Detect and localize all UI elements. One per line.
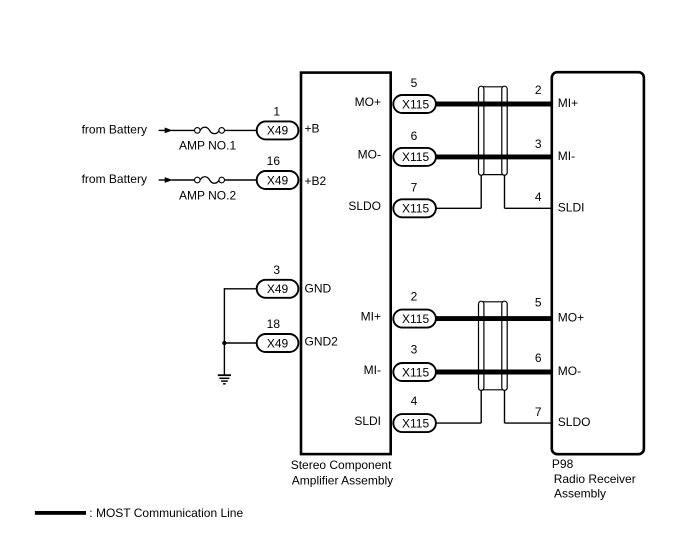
- svg-text:GND: GND: [305, 282, 332, 296]
- svg-text:MI-: MI-: [364, 363, 381, 377]
- svg-text:SLDO: SLDO: [558, 415, 591, 429]
- svg-text:AMP NO.1: AMP NO.1: [179, 139, 236, 153]
- svg-text:Stereo Component: Stereo Component: [291, 458, 392, 472]
- svg-text:6: 6: [411, 129, 418, 143]
- svg-text:2: 2: [535, 83, 542, 97]
- svg-text:4: 4: [535, 190, 542, 204]
- svg-text:X49: X49: [267, 282, 289, 296]
- svg-text:SLDI: SLDI: [354, 414, 381, 428]
- svg-text:5: 5: [535, 296, 542, 310]
- svg-text:X49: X49: [267, 173, 289, 187]
- svg-text:3: 3: [411, 343, 418, 357]
- svg-text:MO+: MO+: [355, 95, 381, 109]
- svg-text:3: 3: [535, 137, 542, 151]
- svg-text:5: 5: [411, 76, 418, 90]
- svg-text:16: 16: [267, 154, 281, 168]
- svg-text:from Battery: from Battery: [82, 122, 147, 136]
- svg-text:AMP NO.2: AMP NO.2: [179, 188, 236, 202]
- svg-text:P98: P98: [552, 457, 574, 471]
- svg-text:7: 7: [411, 180, 418, 194]
- svg-text:: MOST Communication Line: : MOST Communication Line: [89, 506, 243, 520]
- svg-text:X115: X115: [402, 202, 429, 216]
- svg-text:SLDI: SLDI: [558, 200, 585, 214]
- svg-text:X49: X49: [267, 336, 289, 350]
- svg-text:MO-: MO-: [358, 148, 381, 162]
- svg-text:X115: X115: [402, 416, 429, 430]
- svg-text:MI+: MI+: [558, 96, 578, 110]
- svg-text:18: 18: [267, 317, 281, 331]
- svg-text:X49: X49: [267, 124, 289, 138]
- svg-text:1: 1: [273, 105, 280, 119]
- svg-text:X115: X115: [402, 97, 429, 111]
- svg-text:7: 7: [535, 405, 542, 419]
- svg-text:MI-: MI-: [558, 149, 575, 163]
- svg-text:SLDO: SLDO: [348, 199, 381, 213]
- svg-text:X115: X115: [402, 312, 429, 326]
- svg-text:MI+: MI+: [361, 309, 381, 323]
- svg-text:MO-: MO-: [558, 364, 581, 378]
- svg-text:6: 6: [535, 351, 542, 365]
- svg-text:X115: X115: [402, 365, 429, 379]
- svg-text:Amplifier Assembly: Amplifier Assembly: [292, 473, 393, 487]
- svg-text:+B: +B: [305, 121, 320, 135]
- svg-text:Assembly: Assembly: [554, 487, 606, 501]
- svg-text:GND2: GND2: [305, 334, 339, 348]
- svg-text:+B2: +B2: [305, 174, 327, 188]
- svg-text:2: 2: [411, 289, 418, 303]
- svg-text:3: 3: [273, 263, 280, 277]
- svg-text:Radio Receiver: Radio Receiver: [554, 472, 636, 486]
- svg-text:X115: X115: [402, 150, 429, 164]
- svg-text:4: 4: [411, 394, 418, 408]
- svg-text:MO+: MO+: [558, 311, 584, 325]
- svg-text:from Battery: from Battery: [82, 172, 147, 186]
